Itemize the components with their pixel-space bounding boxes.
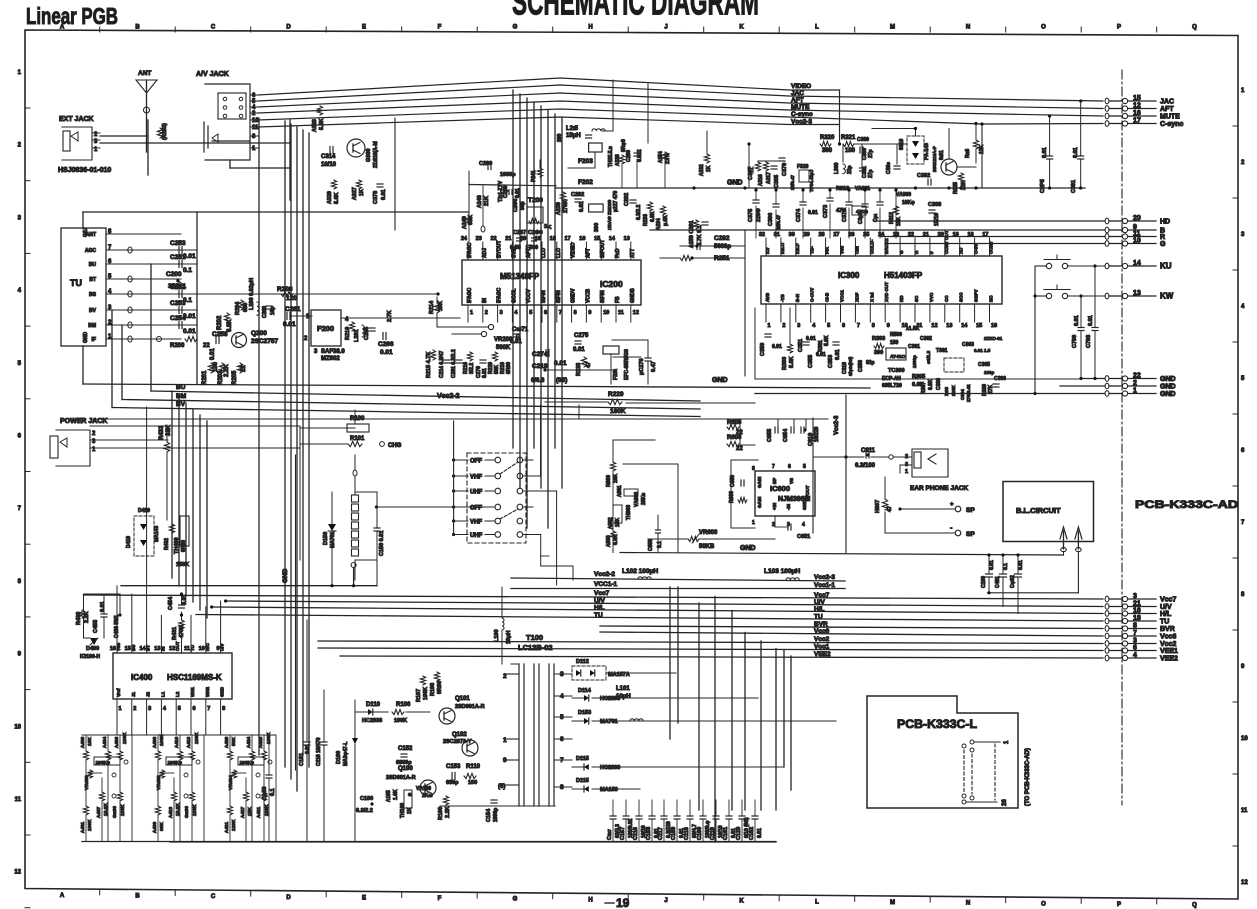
- svg-text:C260: C260: [262, 306, 268, 318]
- svg-text:ANT: ANT: [138, 70, 151, 77]
- svg-text:C455: C455: [93, 620, 99, 633]
- svg-text:C355: C355: [808, 355, 814, 368]
- svg-text:C160: C160: [697, 827, 703, 840]
- svg-text:0.01: 0.01: [210, 348, 216, 360]
- svg-text:GND: GND: [1160, 384, 1176, 391]
- svg-text:R107: R107: [416, 689, 422, 702]
- svg-text:21K: 21K: [484, 196, 490, 206]
- svg-text:C-5V: C-5V: [974, 244, 979, 254]
- svg-text:D410: D410: [138, 508, 150, 514]
- svg-text:C287: C287: [513, 230, 526, 236]
- svg-text:(TO PCB-K333C-AD): (TO PCB-K333C-AD): [1025, 748, 1031, 806]
- svg-text:BYOUT: BYOUT: [497, 241, 503, 258]
- svg-text:22: 22: [1133, 373, 1141, 380]
- svg-text:D115: D115: [576, 778, 589, 784]
- svg-text:8: 8: [752, 466, 755, 472]
- svg-text:PCB-K333C-AD: PCB-K333C-AD: [1135, 499, 1238, 511]
- svg-text:R: R: [1160, 234, 1165, 241]
- svg-text:BV: BV: [176, 401, 186, 408]
- svg-text:Q101: Q101: [455, 696, 470, 702]
- svg-text:100: 100: [213, 361, 219, 372]
- svg-text:N: N: [966, 25, 970, 31]
- svg-text:OFF: OFF: [470, 506, 482, 512]
- svg-text:D: D: [286, 25, 291, 31]
- svg-text:1: 1: [119, 706, 122, 712]
- svg-text:Vcc2-3: Vcc2-3: [814, 574, 835, 581]
- svg-text:XVD OUT: XVD OUT: [884, 282, 889, 302]
- svg-text:O: O: [1041, 25, 1046, 31]
- svg-text:13: 13: [1133, 290, 1141, 297]
- svg-text:14: 14: [609, 236, 616, 242]
- svg-text:Λ419: Λ419: [168, 806, 174, 818]
- svg-text:35/0.1: 35/0.1: [168, 283, 186, 290]
- svg-text:9: 9: [588, 310, 591, 316]
- svg-text:C119: C119: [710, 827, 716, 840]
- svg-text:6: 6: [544, 310, 547, 316]
- svg-text:R312: R312: [889, 212, 895, 224]
- svg-text:LLO: LLO: [541, 248, 547, 258]
- svg-text:C303: C303: [936, 378, 942, 390]
- svg-text:0.1: 0.1: [1003, 563, 1009, 570]
- svg-text:1: 1: [1133, 388, 1137, 395]
- svg-text:1: 1: [752, 520, 755, 526]
- svg-text:+: +: [950, 502, 954, 508]
- svg-text:O: O: [1041, 901, 1046, 907]
- svg-text:J: J: [664, 898, 667, 904]
- svg-text:C373: C373: [823, 205, 829, 218]
- svg-text:HSC1169MS-K: HSC1169MS-K: [167, 673, 222, 682]
- svg-text:BVR: BVR: [1160, 626, 1175, 633]
- svg-text:G: G: [513, 25, 518, 31]
- svg-text:18: 18: [1133, 615, 1141, 622]
- svg-text:7: 7: [772, 464, 775, 470]
- svg-text:10: 10: [1241, 736, 1248, 742]
- svg-text:AFT: AFT: [791, 97, 804, 104]
- svg-text:μ.6K: μ.6K: [663, 215, 669, 226]
- svg-text:JAC: JAC: [791, 90, 804, 97]
- svg-text:3: 3: [1133, 593, 1137, 600]
- svg-text:VHF: VHF: [470, 475, 482, 481]
- svg-text:TU: TU: [190, 645, 195, 651]
- svg-text:σ0/1.5: σ0/1.5: [926, 350, 931, 364]
- svg-text:Vcc: Vcc: [840, 245, 845, 254]
- svg-text:58K: 58K: [231, 737, 237, 746]
- svg-text:390: 390: [557, 133, 563, 142]
- svg-text:120: 120: [286, 295, 297, 302]
- svg-text:BT: BT: [89, 277, 96, 283]
- svg-text:2: 2: [485, 310, 488, 316]
- svg-text:TC300: TC300: [888, 368, 905, 374]
- svg-text:C262: C262: [571, 192, 584, 198]
- svg-text:D400: D400: [86, 646, 99, 652]
- svg-text:0.01: 0.01: [1018, 560, 1024, 570]
- svg-text:R109: R109: [438, 807, 444, 820]
- svg-text:100K: 100K: [423, 687, 429, 700]
- svg-text:G: G: [513, 897, 518, 903]
- svg-text:HSJ0836-01-010: HSJ0836-01-010: [58, 167, 111, 174]
- svg-text:KW: KW: [1160, 292, 1174, 301]
- svg-text:ADJ: ADJ: [482, 248, 488, 258]
- svg-text:10K: 10K: [438, 301, 444, 311]
- svg-text:R201: R201: [202, 370, 208, 385]
- svg-text:Λ406: Λ406: [114, 736, 120, 748]
- svg-text:C380: C380: [857, 137, 869, 143]
- svg-text:FIX: FIX: [825, 247, 830, 254]
- svg-text:6/φ6ι(0S): 6/φ6ι(0S): [848, 356, 853, 376]
- svg-text:IC400: IC400: [131, 673, 153, 682]
- svg-text:24: 24: [461, 236, 468, 242]
- svg-text:MA3φ47-L: MA3φ47-L: [343, 742, 349, 766]
- svg-text:Λ316: Λ316: [758, 174, 764, 186]
- svg-text:15K: 15K: [896, 216, 902, 226]
- svg-text:C275: C275: [574, 333, 589, 339]
- svg-text:GAIN: GAIN: [757, 477, 762, 488]
- svg-text:G: G: [899, 250, 904, 254]
- svg-text:6800ρ: 6800ρ: [396, 760, 412, 766]
- svg-text:C654: C654: [783, 428, 789, 442]
- svg-text:6: 6: [788, 464, 791, 470]
- svg-text:CI-B: CI-B: [825, 292, 830, 302]
- svg-text:270K: 270K: [563, 200, 569, 213]
- svg-text:27ρ: 27ρ: [868, 149, 874, 158]
- svg-text:180K: 180K: [120, 804, 126, 816]
- svg-text:2ΣΚC-01: 2ΣΚC-01: [984, 336, 1003, 341]
- svg-text:22: 22: [241, 365, 247, 372]
- svg-text:VR404: VR404: [228, 775, 234, 790]
- svg-text:T200: T200: [528, 197, 543, 204]
- svg-text:100K: 100K: [159, 734, 165, 746]
- svg-text:Vcc6: Vcc6: [814, 628, 830, 635]
- svg-text:100: 100: [468, 780, 477, 786]
- svg-text:N: N: [966, 901, 970, 907]
- svg-text:25/0.47: 25/0.47: [776, 214, 781, 230]
- svg-text:10: 10: [252, 118, 259, 124]
- svg-text:C253: C253: [170, 300, 186, 307]
- svg-text:R500: R500: [890, 332, 902, 338]
- svg-text:10Kφ: 10Kφ: [902, 200, 915, 206]
- svg-text:C361: C361: [908, 344, 920, 350]
- svg-text:Vcc2: Vcc2: [1160, 641, 1176, 648]
- svg-text:180K: 180K: [87, 819, 93, 831]
- svg-text:22: 22: [203, 343, 210, 349]
- svg-text:ΩDAΦ ΣΜΩ30: ΩDAΦ ΣΜΩ30: [607, 199, 612, 230]
- svg-text:GNDB: GNDB: [630, 288, 636, 303]
- svg-text:UHF: UHF: [470, 533, 483, 539]
- svg-text:R205: R205: [232, 370, 238, 385]
- svg-text:IOr: IOr: [765, 247, 770, 254]
- svg-text:E: E: [362, 895, 366, 901]
- svg-text:390: 390: [594, 223, 600, 232]
- svg-text:C391: C391: [1071, 180, 1077, 193]
- svg-text:T301: T301: [936, 348, 948, 354]
- svg-text:K3100-H: K3100-H: [80, 654, 100, 660]
- svg-text:31: 31: [774, 232, 780, 238]
- svg-text:21: 21: [1133, 601, 1141, 608]
- svg-text:L101: L101: [616, 686, 630, 692]
- svg-text:Λ254: Λ254: [658, 151, 664, 163]
- svg-text:18: 18: [550, 236, 556, 242]
- svg-text:C: C: [211, 25, 216, 31]
- svg-text:2SD601A-R: 2SD601A-R: [455, 704, 485, 710]
- svg-text:Q: Q: [1192, 25, 1197, 31]
- svg-text:12: 12: [14, 870, 21, 876]
- svg-text:C120: C120: [736, 827, 742, 840]
- svg-text:ΡA-143: ΡA-143: [924, 143, 930, 160]
- svg-text:6.3/2.2: 6.3/2.2: [636, 204, 642, 220]
- svg-text:C251: C251: [170, 254, 186, 261]
- svg-text:VEE2: VEE2: [814, 651, 831, 658]
- svg-text:AT-51C: AT-51C: [890, 354, 906, 359]
- svg-text:7: 7: [1133, 630, 1137, 637]
- svg-text:COLO-: COLO-: [869, 239, 874, 254]
- svg-text:Λ329: Λ329: [327, 191, 333, 204]
- svg-text:(0S): (0S): [556, 378, 567, 384]
- svg-text:U/V: U/V: [220, 643, 225, 651]
- svg-text:12: 12: [1241, 880, 1248, 886]
- svg-text:1000ρ: 1000ρ: [493, 808, 499, 822]
- svg-text:L1: L1: [160, 691, 165, 697]
- svg-text:21: 21: [505, 236, 511, 242]
- svg-text:5: 5: [529, 310, 532, 316]
- svg-text:25/0.47: 25/0.47: [790, 174, 795, 190]
- svg-text:11: 11: [1241, 808, 1248, 814]
- svg-text:B.L.CIRCUIT: B.L.CIRCUIT: [1016, 506, 1061, 515]
- svg-text:Λ238: Λ238: [615, 154, 621, 166]
- svg-text:EAR PHONE JACK: EAR PHONE JACK: [910, 485, 968, 492]
- svg-text:C158: C158: [646, 827, 652, 840]
- svg-text:SGPV: SGPV: [974, 289, 979, 302]
- svg-text:2: 2: [1133, 380, 1137, 387]
- svg-text:SIFIN: SIFIN: [556, 290, 562, 303]
- svg-text:YD-: YD-: [810, 246, 815, 254]
- svg-text:R325: R325: [953, 182, 959, 194]
- svg-text:U/V: U/V: [1160, 604, 1172, 611]
- svg-text:F320: F320: [797, 164, 809, 170]
- svg-text:4: 4: [1133, 652, 1137, 659]
- svg-text:C153: C153: [446, 764, 461, 770]
- svg-text:-IN: -IN: [786, 504, 791, 510]
- svg-text:Λ424: Λ424: [246, 736, 252, 748]
- svg-text:Vcc7: Vcc7: [1160, 597, 1176, 604]
- svg-text:Vcc7: Vcc7: [814, 592, 830, 599]
- svg-text:5: 5: [178, 706, 181, 712]
- svg-text:MA701: MA701: [600, 719, 618, 725]
- svg-text:A: A: [60, 893, 65, 899]
- svg-text:GNDV: GNDV: [571, 288, 577, 303]
- svg-text:035L720: 035L720: [882, 383, 902, 389]
- svg-text:C379: C379: [782, 163, 788, 176]
- svg-text:Σι08: Σι08: [944, 387, 949, 396]
- svg-text:Λ428: Λ428: [258, 736, 264, 748]
- svg-text:1E/10: 1E/10: [934, 213, 940, 226]
- svg-text:R229: R229: [608, 391, 624, 398]
- svg-text:C: C: [211, 894, 216, 900]
- svg-text:C799: C799: [1072, 335, 1078, 348]
- svg-text:0.1: 0.1: [183, 267, 192, 274]
- svg-text:47KΩ: 47KΩ: [856, 209, 868, 214]
- svg-text:8: 8: [872, 323, 875, 329]
- svg-text:10: 10: [14, 724, 21, 730]
- svg-text:EFC-S5R5G6: EFC-S5R5G6: [624, 349, 630, 380]
- svg-text:5.6K: 5.6K: [334, 192, 340, 204]
- svg-text:F202: F202: [578, 179, 593, 186]
- svg-text:50KB: 50KB: [699, 544, 715, 550]
- svg-text:10K: 10K: [613, 473, 619, 483]
- svg-text:R233: R233: [643, 214, 649, 226]
- svg-text:VVC: VVC: [929, 292, 934, 302]
- svg-text:Vcc2: Vcc2: [814, 636, 830, 643]
- svg-text:UHF: UHF: [470, 490, 483, 496]
- svg-text:C214 6.3/47: C214 6.3/47: [439, 351, 445, 378]
- svg-text:C798: C798: [1086, 335, 1092, 348]
- svg-text:C117: C117: [658, 827, 664, 840]
- svg-text:F: F: [438, 25, 442, 31]
- svg-text:2S81218A-Ρ: 2S81218A-Ρ: [932, 146, 937, 172]
- svg-text:150K: 150K: [176, 562, 189, 568]
- svg-text:H/C: H/C: [205, 643, 210, 652]
- svg-text:GND: GND: [83, 332, 89, 344]
- svg-text:5: 5: [827, 323, 830, 329]
- svg-text:BP: BP: [772, 478, 777, 484]
- svg-text:6: 6: [193, 706, 196, 712]
- svg-text:C454: C454: [168, 596, 174, 610]
- svg-text:6/6.8: 6/6.8: [531, 378, 545, 384]
- svg-text:R432: R432: [164, 538, 170, 550]
- svg-text:C254: C254: [170, 315, 186, 322]
- svg-text:VCCV: VCCV: [526, 288, 532, 303]
- svg-text:L: L: [815, 899, 819, 905]
- svg-text:0R00: 0R00: [506, 362, 512, 374]
- svg-text:150: 150: [890, 340, 899, 346]
- svg-text:13: 13: [946, 323, 952, 329]
- svg-text:C362: C362: [920, 336, 932, 342]
- svg-text:0.01: 0.01: [515, 188, 521, 198]
- svg-text:VΛ300: VΛ300: [896, 192, 911, 198]
- svg-text:C265: C265: [364, 327, 370, 340]
- svg-text:C365: C365: [978, 362, 990, 368]
- svg-text:180K: 180K: [194, 732, 200, 744]
- svg-text:R307: R307: [921, 382, 927, 394]
- svg-text:15μH: 15μH: [566, 133, 581, 139]
- svg-text:11: 11: [1133, 231, 1141, 238]
- svg-text:C655: C655: [767, 429, 773, 442]
- svg-text:0.01: 0.01: [573, 347, 585, 353]
- svg-text:C2Ρ5: C2Ρ5: [1040, 179, 1046, 193]
- svg-text:C100: C100: [360, 796, 373, 802]
- svg-text:1: 1: [470, 310, 473, 316]
- svg-text:TH100: TH100: [400, 803, 406, 818]
- svg-text:HD: HD: [1160, 219, 1170, 226]
- svg-text:F203: F203: [578, 158, 593, 165]
- svg-text:2SC2757: 2SC2757: [251, 338, 278, 345]
- svg-text:C356: C356: [858, 360, 864, 372]
- svg-text:Linear PGB: Linear PGB: [26, 3, 118, 29]
- svg-text:J: J: [664, 25, 667, 31]
- svg-text:VS: VS: [789, 478, 794, 484]
- svg-text:180K: 180K: [122, 732, 128, 744]
- svg-text:47: 47: [887, 506, 893, 512]
- svg-text:IFAGC: IFAGC: [467, 242, 473, 258]
- svg-text:TP54.43ρJ: TP54.43ρJ: [809, 169, 814, 192]
- svg-text:KB.F: KB.F: [795, 243, 800, 254]
- svg-text:VEE2: VEE2: [1160, 656, 1178, 663]
- svg-text:VΛ301: VΛ301: [855, 186, 870, 192]
- svg-text:Cρι: Cρι: [873, 213, 879, 222]
- svg-text:R106: R106: [396, 702, 411, 708]
- svg-text:H: H: [588, 897, 592, 903]
- svg-text:180K: 180K: [610, 408, 626, 415]
- svg-text:C154: C154: [486, 808, 492, 822]
- svg-text:66K: 66K: [159, 822, 165, 831]
- svg-text:1: 1: [503, 737, 507, 744]
- svg-text:IC300: IC300: [838, 271, 860, 280]
- svg-text:SP: SP: [966, 531, 975, 538]
- svg-text:Λ409: Λ409: [152, 821, 158, 833]
- svg-text:Λ418: Λ418: [186, 736, 192, 748]
- svg-text:5.6K: 5.6K: [319, 118, 325, 130]
- svg-text:ANT: ANT: [86, 232, 96, 238]
- svg-text:100: 100: [845, 148, 856, 154]
- svg-text:26: 26: [1002, 799, 1008, 806]
- svg-text:0.01: 0.01: [835, 349, 841, 360]
- svg-text:AFT: AFT: [585, 248, 591, 258]
- svg-text:390: 390: [822, 148, 833, 154]
- svg-text:TH25.5.в: TH25.5.в: [608, 146, 614, 167]
- svg-text:Λ420: Λ420: [224, 736, 230, 748]
- svg-text:IFAGC: IFAGC: [497, 287, 503, 303]
- svg-text:D153: D153: [578, 710, 591, 716]
- svg-text:WH1: WH1: [190, 687, 195, 697]
- svg-text:12: 12: [1133, 103, 1141, 110]
- svg-text:AFT: AFT: [1160, 106, 1174, 113]
- svg-text:D115: D115: [576, 756, 589, 762]
- svg-text:0.01: 0.01: [305, 744, 311, 754]
- svg-text:0.1: 0.1: [270, 788, 276, 796]
- svg-text:4: 4: [802, 522, 805, 528]
- svg-text:0.01: 0.01: [1074, 315, 1080, 326]
- svg-text:VCC1: VCC1: [840, 289, 845, 302]
- svg-text:IC600: IC600: [770, 484, 790, 493]
- svg-text:8: 8: [574, 310, 577, 316]
- svg-text:D114: D114: [578, 688, 592, 694]
- svg-text:Q102: Q102: [452, 732, 467, 738]
- svg-text:C651: C651: [797, 534, 810, 540]
- svg-text:K: K: [739, 899, 744, 905]
- svg-text:L100: L100: [494, 629, 500, 642]
- svg-text:R110: R110: [466, 764, 481, 770]
- svg-text:Vcc2-2: Vcc2-2: [437, 393, 460, 400]
- svg-text:Λ328: Λ328: [312, 119, 318, 132]
- svg-text:0.01: 0.01: [1042, 147, 1048, 158]
- svg-text:R204: R204: [235, 301, 241, 315]
- svg-text:TU: TU: [70, 278, 82, 288]
- svg-text:220K: 220K: [951, 384, 956, 396]
- svg-text:BS: BS: [131, 645, 136, 651]
- svg-text:2.2K: 2.2K: [84, 611, 90, 623]
- svg-text:Λ408: Λ408: [152, 736, 158, 748]
- svg-text:WH2: WH2: [205, 687, 210, 697]
- svg-text:C253: C253: [170, 240, 186, 247]
- svg-text:500K: 500K: [496, 345, 511, 351]
- svg-text:R210: R210: [345, 327, 351, 340]
- svg-text:C280: C280: [626, 150, 632, 162]
- svg-text:-YB: -YB: [780, 294, 785, 303]
- svg-text:(6): (6): [498, 784, 505, 790]
- svg-text:0.01: 0.01: [579, 201, 585, 212]
- svg-text:C-OUT: C-OUT: [810, 288, 815, 302]
- svg-text:Vcc: Vcc: [116, 642, 121, 651]
- svg-text:H: H: [914, 251, 919, 254]
